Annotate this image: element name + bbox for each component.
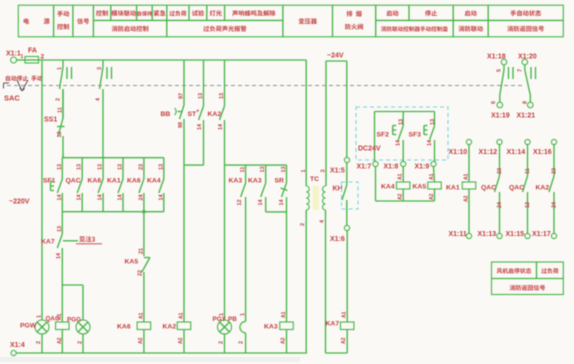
svg-text:14: 14 <box>77 193 83 200</box>
svg-text:A1: A1 <box>464 173 470 180</box>
svg-text:2: 2 <box>36 341 42 344</box>
svg-text:X1:9: X1:9 <box>415 164 430 171</box>
svg-text:QAC: QAC <box>481 185 496 192</box>
svg-text:1: 1 <box>219 313 225 316</box>
svg-text:PGY: PGY <box>213 316 227 323</box>
svg-text:KA1: KA1 <box>446 185 460 192</box>
svg-text:2: 2 <box>41 54 45 61</box>
svg-text:X1:4: X1:4 <box>10 342 25 349</box>
svg-text:KA5: KA5 <box>125 259 139 266</box>
svg-text:23: 23 <box>138 164 144 170</box>
svg-text:KA2: KA2 <box>208 111 222 118</box>
svg-text:SS1: SS1 <box>44 117 57 124</box>
svg-text:A2: A2 <box>138 337 144 344</box>
svg-text:BB: BB <box>161 111 171 118</box>
svg-text:SAC: SAC <box>4 94 20 103</box>
svg-text:X1:10: X1:10 <box>449 149 468 156</box>
svg-text:X1:16: X1:16 <box>533 149 552 156</box>
svg-text:X1:19: X1:19 <box>491 113 510 120</box>
svg-text:14: 14 <box>118 193 124 200</box>
svg-text:13: 13 <box>77 164 83 170</box>
svg-text:X1:15: X1:15 <box>506 231 525 238</box>
svg-text:24: 24 <box>497 201 503 208</box>
svg-text:X1:21: X1:21 <box>517 113 536 120</box>
svg-text:TC: TC <box>310 176 319 183</box>
svg-text:X1:13: X1:13 <box>478 231 497 238</box>
svg-text:11: 11 <box>58 107 64 113</box>
svg-text:5: 5 <box>497 69 503 72</box>
svg-text:SF3: SF3 <box>409 132 422 139</box>
svg-text:KA6: KA6 <box>88 178 102 185</box>
svg-text:KA4: KA4 <box>381 184 395 191</box>
svg-text:KA6: KA6 <box>117 324 131 331</box>
svg-text:X1:7: X1:7 <box>357 164 372 171</box>
svg-text:4: 4 <box>320 219 326 223</box>
svg-text:2: 2 <box>56 98 62 101</box>
svg-text:DC24V: DC24V <box>358 146 381 153</box>
svg-text:23: 23 <box>552 168 558 174</box>
svg-text:1: 1 <box>240 313 246 316</box>
svg-text:KA3: KA3 <box>229 178 243 185</box>
svg-text:e: e <box>197 108 200 113</box>
svg-text:1: 1 <box>21 54 24 60</box>
svg-text:KA2: KA2 <box>536 185 550 192</box>
svg-text:A2: A2 <box>281 337 287 344</box>
svg-text:A2: A2 <box>178 337 184 344</box>
svg-text:14: 14 <box>56 252 62 259</box>
svg-text:2: 2 <box>300 223 306 226</box>
svg-text:SR: SR <box>275 178 285 185</box>
svg-text:PGW: PGW <box>20 323 37 330</box>
svg-text:KA2: KA2 <box>163 324 177 331</box>
svg-text:13: 13 <box>198 93 204 99</box>
svg-text:97: 97 <box>179 93 185 99</box>
svg-text:12: 12 <box>237 199 243 205</box>
svg-text:A2: A2 <box>429 193 435 200</box>
svg-text:8: 8 <box>523 101 529 104</box>
svg-text:~220V: ~220V <box>9 199 30 206</box>
svg-text:14: 14 <box>427 139 433 146</box>
svg-text:14: 14 <box>197 123 203 130</box>
svg-text:A1: A1 <box>179 312 185 319</box>
svg-text:X1:20: X1:20 <box>518 54 537 61</box>
svg-text:~24V: ~24V <box>327 53 344 60</box>
svg-text:X1:11: X1:11 <box>449 231 467 238</box>
svg-text:KA3: KA3 <box>264 324 278 331</box>
svg-text:14: 14 <box>158 193 164 200</box>
svg-text:X1:12: X1:12 <box>479 149 498 156</box>
svg-text:2: 2 <box>239 341 245 344</box>
svg-text:QAC: QAC <box>66 178 81 185</box>
svg-text:1: 1 <box>301 169 307 172</box>
svg-text:A2: A2 <box>341 337 347 344</box>
svg-text:KA6: KA6 <box>127 178 141 185</box>
svg-text:14: 14 <box>57 193 63 200</box>
svg-text:KA5: KA5 <box>413 184 427 191</box>
svg-text:FA: FA <box>28 48 37 55</box>
svg-text:A2: A2 <box>57 337 63 344</box>
svg-text:12: 12 <box>525 202 531 208</box>
svg-text:13: 13 <box>219 93 225 99</box>
svg-text:2: 2 <box>219 341 225 344</box>
svg-text:PB: PB <box>228 316 237 323</box>
svg-text:A2: A2 <box>464 195 470 202</box>
svg-text:A1: A1 <box>281 311 287 318</box>
svg-text:24: 24 <box>138 193 144 200</box>
svg-text:23: 23 <box>497 168 503 174</box>
svg-text:11: 11 <box>525 168 531 174</box>
svg-text:13: 13 <box>57 164 63 170</box>
svg-text:3: 3 <box>97 67 103 70</box>
svg-text:13: 13 <box>281 166 287 172</box>
svg-text:KA7: KA7 <box>41 239 55 246</box>
svg-text:13: 13 <box>430 119 436 125</box>
svg-text:X1:1: X1:1 <box>6 51 21 58</box>
svg-text:A1: A1 <box>429 173 435 180</box>
svg-text:14: 14 <box>258 198 264 205</box>
svg-text:A1: A1 <box>57 313 63 320</box>
svg-text:21: 21 <box>138 248 144 254</box>
svg-text:7: 7 <box>518 69 524 72</box>
svg-text:24: 24 <box>552 201 558 208</box>
svg-text:SF2: SF2 <box>377 132 390 139</box>
svg-text:98: 98 <box>178 122 184 128</box>
svg-text:14: 14 <box>396 139 402 146</box>
svg-text:PGG: PGG <box>67 317 81 324</box>
svg-text:X1:17: X1:17 <box>532 231 551 238</box>
svg-text:X1:6: X1:6 <box>330 236 345 243</box>
svg-text:12: 12 <box>57 131 63 137</box>
svg-text:14: 14 <box>218 123 224 130</box>
svg-text:1: 1 <box>57 67 63 70</box>
svg-text:X1:8: X1:8 <box>384 164 399 171</box>
svg-text:KA7: KA7 <box>326 321 340 328</box>
svg-text:1: 1 <box>37 315 43 318</box>
svg-text:QAC: QAC <box>509 185 524 192</box>
svg-text:4: 4 <box>96 97 102 101</box>
svg-text:13: 13 <box>98 164 104 170</box>
svg-text:11: 11 <box>240 167 246 173</box>
svg-text:22: 22 <box>138 270 144 276</box>
svg-text:13: 13 <box>260 166 266 172</box>
svg-text:X1:5: X1:5 <box>330 168 345 175</box>
svg-text:6: 6 <box>491 101 497 104</box>
svg-text:X1:14: X1:14 <box>507 149 526 156</box>
svg-text:14: 14 <box>98 193 104 200</box>
svg-text:13: 13 <box>118 164 124 170</box>
svg-text:KA3: KA3 <box>248 178 262 185</box>
svg-text:KA4: KA4 <box>147 178 161 185</box>
svg-text:13: 13 <box>399 119 405 125</box>
svg-text:13: 13 <box>158 164 164 170</box>
svg-text:KA1: KA1 <box>107 178 121 185</box>
svg-text:13: 13 <box>57 226 63 232</box>
svg-text:A1: A1 <box>398 173 404 180</box>
svg-text:A1: A1 <box>342 311 348 318</box>
svg-text:2: 2 <box>78 341 84 344</box>
svg-text:14: 14 <box>279 198 285 205</box>
svg-text:A1: A1 <box>139 312 145 319</box>
svg-text:A2: A2 <box>398 193 404 200</box>
